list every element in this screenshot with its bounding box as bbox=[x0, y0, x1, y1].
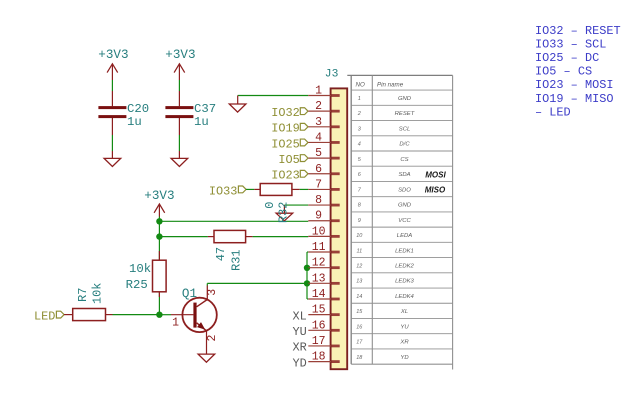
svg-text:IO32 – RESET: IO32 – RESET bbox=[535, 24, 621, 38]
svg-text:LEDK1: LEDK1 bbox=[395, 248, 414, 254]
svg-text:GND: GND bbox=[398, 96, 412, 102]
svg-text:IO33: IO33 bbox=[209, 184, 238, 198]
svg-text:– LED: – LED bbox=[535, 105, 571, 119]
svg-text:+3V3: +3V3 bbox=[98, 48, 128, 62]
svg-text:8: 8 bbox=[315, 194, 322, 207]
svg-text:16: 16 bbox=[356, 324, 363, 330]
svg-text:R25: R25 bbox=[126, 278, 148, 292]
svg-text:LEDA: LEDA bbox=[397, 233, 412, 239]
svg-text:YD: YD bbox=[293, 356, 307, 370]
svg-text:2: 2 bbox=[206, 334, 219, 341]
svg-text:1: 1 bbox=[358, 96, 361, 102]
svg-text:10k: 10k bbox=[90, 283, 104, 304]
svg-text:12: 12 bbox=[312, 257, 326, 270]
svg-text:1: 1 bbox=[315, 85, 322, 98]
svg-text:NO: NO bbox=[356, 81, 365, 88]
svg-text:10k: 10k bbox=[129, 262, 151, 276]
svg-text:11: 11 bbox=[312, 241, 326, 254]
svg-text:6: 6 bbox=[315, 163, 322, 176]
svg-text:C20: C20 bbox=[127, 102, 149, 116]
svg-text:YU: YU bbox=[400, 324, 409, 330]
svg-text:IO33 – SCL: IO33 – SCL bbox=[535, 38, 606, 52]
svg-text:+3V3: +3V3 bbox=[165, 48, 195, 62]
svg-text:XL: XL bbox=[400, 309, 408, 315]
svg-text:XR: XR bbox=[399, 340, 409, 346]
svg-text:7: 7 bbox=[315, 178, 322, 191]
svg-text:9: 9 bbox=[358, 218, 361, 224]
svg-text:LED: LED bbox=[34, 309, 55, 323]
svg-text:10: 10 bbox=[356, 233, 363, 239]
svg-text:11: 11 bbox=[356, 248, 362, 254]
svg-text:4: 4 bbox=[315, 131, 322, 144]
svg-text:1u: 1u bbox=[127, 115, 142, 129]
svg-text:Pin name: Pin name bbox=[377, 81, 404, 88]
svg-text:MISO: MISO bbox=[425, 186, 446, 195]
svg-text:14: 14 bbox=[312, 288, 326, 301]
svg-text:IO23: IO23 bbox=[271, 169, 300, 183]
svg-text:R31: R31 bbox=[229, 249, 243, 270]
svg-text:3: 3 bbox=[315, 116, 322, 129]
svg-text:12: 12 bbox=[356, 263, 362, 269]
svg-text:5: 5 bbox=[315, 147, 322, 160]
svg-text:47: 47 bbox=[214, 247, 228, 261]
svg-text:IO19 – MISO: IO19 – MISO bbox=[535, 92, 614, 106]
svg-text:18: 18 bbox=[356, 355, 363, 361]
svg-text:R7: R7 bbox=[76, 288, 90, 302]
svg-text:R32: R32 bbox=[277, 202, 291, 223]
svg-text:CS: CS bbox=[400, 157, 408, 163]
svg-text:1: 1 bbox=[172, 317, 179, 330]
svg-text:IO23 – MOSI: IO23 – MOSI bbox=[535, 78, 614, 92]
svg-text:D/C: D/C bbox=[399, 142, 410, 148]
svg-text:SCL: SCL bbox=[399, 126, 410, 132]
svg-text:LEDK4: LEDK4 bbox=[395, 294, 414, 300]
svg-text:15: 15 bbox=[356, 309, 363, 315]
svg-text:10: 10 bbox=[312, 225, 326, 238]
svg-text:VCC: VCC bbox=[398, 218, 411, 224]
svg-text:GND: GND bbox=[398, 203, 412, 209]
svg-text:LEDK2: LEDK2 bbox=[395, 263, 414, 269]
svg-text:IO25 – DC: IO25 – DC bbox=[535, 51, 599, 65]
svg-text:3: 3 bbox=[206, 289, 219, 296]
svg-text:17: 17 bbox=[312, 335, 326, 348]
svg-text:13: 13 bbox=[312, 272, 326, 285]
svg-text:LEDK3: LEDK3 bbox=[395, 279, 414, 285]
svg-text:YD: YD bbox=[400, 355, 409, 361]
svg-text:J3: J3 bbox=[325, 69, 339, 81]
svg-text:2: 2 bbox=[357, 111, 361, 117]
svg-text:IO32: IO32 bbox=[271, 106, 300, 120]
svg-text:0: 0 bbox=[263, 202, 277, 209]
svg-text:18: 18 bbox=[312, 351, 326, 364]
svg-text:13: 13 bbox=[356, 279, 363, 285]
svg-text:MOSI: MOSI bbox=[425, 170, 446, 179]
svg-text:+3V3: +3V3 bbox=[144, 189, 174, 203]
svg-text:IO5: IO5 bbox=[278, 153, 299, 167]
svg-text:RESET: RESET bbox=[395, 111, 415, 117]
svg-text:9: 9 bbox=[315, 210, 322, 223]
svg-text:XR: XR bbox=[293, 341, 307, 355]
svg-text:SDA: SDA bbox=[398, 172, 410, 178]
svg-text:4: 4 bbox=[358, 142, 361, 148]
svg-text:17: 17 bbox=[356, 340, 363, 346]
svg-text:C37: C37 bbox=[194, 102, 216, 116]
svg-text:IO19: IO19 bbox=[271, 122, 300, 136]
svg-text:Q1: Q1 bbox=[182, 287, 197, 301]
svg-text:16: 16 bbox=[312, 319, 326, 332]
svg-text:XL: XL bbox=[293, 309, 307, 323]
svg-text:YU: YU bbox=[293, 325, 307, 339]
svg-text:14: 14 bbox=[356, 294, 362, 300]
svg-text:IO5 – CS: IO5 – CS bbox=[535, 65, 592, 79]
svg-text:1u: 1u bbox=[194, 115, 209, 129]
svg-text:15: 15 bbox=[312, 304, 326, 317]
svg-text:SDO: SDO bbox=[398, 187, 411, 193]
svg-text:2: 2 bbox=[315, 100, 322, 113]
svg-text:IO25: IO25 bbox=[271, 137, 300, 151]
